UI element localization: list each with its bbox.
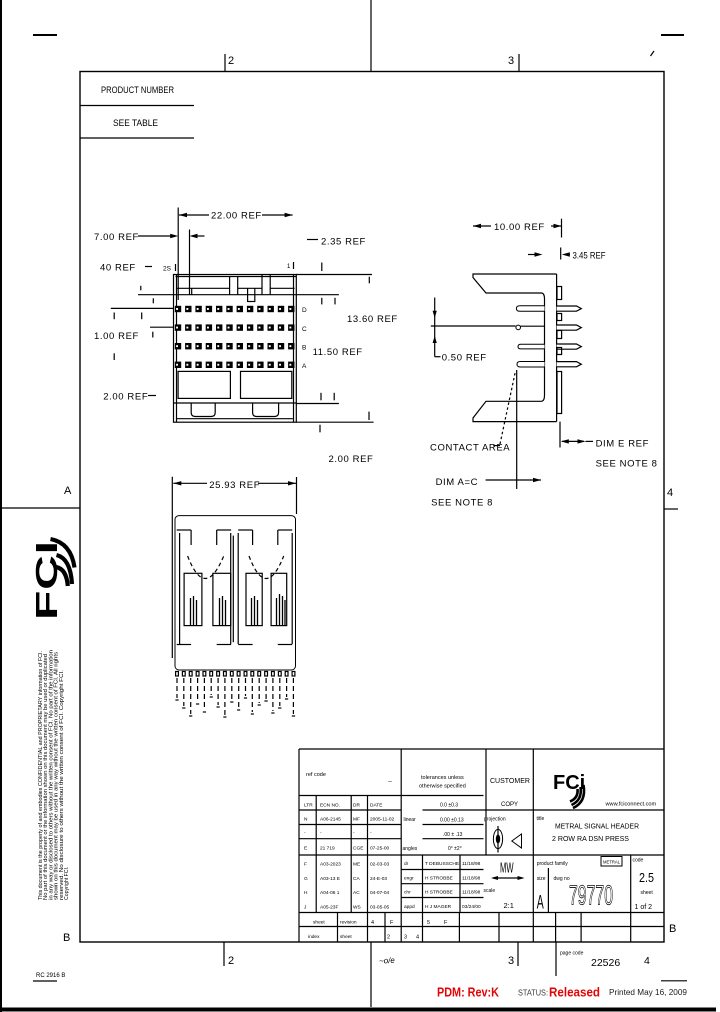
front top band xyxy=(174,294,297,296)
side pin row2 xyxy=(516,325,521,330)
svg-text:Printed May 16, 2009: Printed May 16, 2009 xyxy=(609,988,688,997)
foot left xyxy=(191,403,215,417)
svg-text:revision: revision xyxy=(340,920,357,926)
svg-text:CUSTOMER: CUSTOMER xyxy=(490,778,530,785)
zone tick bottom 2 xyxy=(223,942,225,966)
svg-text:7.00 REF: 7.00 REF xyxy=(94,232,139,243)
svg-text:index: index xyxy=(308,934,320,940)
svg-text:2: 2 xyxy=(387,935,390,941)
zone divider left A/B xyxy=(0,507,80,509)
svg-text:2.35 REF: 2.35 REF xyxy=(321,237,366,248)
svg-text:2S: 2S xyxy=(163,266,172,273)
svg-text:code: code xyxy=(633,858,644,864)
dim E REF xyxy=(559,422,561,448)
group2 pressfit pins xyxy=(252,594,286,625)
zone divider top xyxy=(370,0,372,72)
svg-text:Copyright FCI.: Copyright FCI. xyxy=(64,867,70,900)
svg-text:SEE NOTE 8: SEE NOTE 8 xyxy=(431,498,493,509)
svg-text:4: 4 xyxy=(371,920,374,926)
svg-text:DATE: DATE xyxy=(370,803,382,809)
svg-text:RC 2916 B: RC 2916 B xyxy=(36,973,65,979)
svg-text:AC: AC xyxy=(353,890,360,896)
svg-text:chr: chr xyxy=(404,890,411,896)
FCI logo vertical xyxy=(29,540,64,620)
dimension 10.00 REF xyxy=(473,219,562,238)
group1 pressfit pins xyxy=(191,596,226,625)
svg-text:ME: ME xyxy=(353,862,360,868)
svg-text:4: 4 xyxy=(416,935,419,941)
top-right tick mark xyxy=(651,51,655,56)
right stagger lines xyxy=(296,295,373,433)
FCI logo cell xyxy=(553,772,585,808)
svg-text:4: 4 xyxy=(667,487,673,499)
foot right xyxy=(253,403,279,417)
svg-text:F: F xyxy=(304,862,307,868)
svg-text:0.50 REF: 0.50 REF xyxy=(442,352,487,363)
svg-text:02-03-03: 02-03-03 xyxy=(370,862,390,868)
svg-text:1 of 2: 1 of 2 xyxy=(635,904,653,911)
svg-text:2: 2 xyxy=(228,55,234,67)
product number box xyxy=(80,106,194,139)
svg-text:A03-2023: A03-2023 xyxy=(320,862,341,868)
svg-text:3: 3 xyxy=(508,955,514,967)
svg-text:ref code: ref code xyxy=(306,772,326,778)
svg-text:11.50 REF: 11.50 REF xyxy=(313,347,363,358)
svg-text:H: H xyxy=(304,890,308,896)
svg-text:appd: appd xyxy=(404,904,415,910)
svg-text:PDM: Rev:K: PDM: Rev:K xyxy=(437,986,499,1000)
svg-text:CA: CA xyxy=(353,876,360,882)
dimension 22.00 REF xyxy=(178,208,292,301)
svg-text:www.fciconnect.com: www.fciconnect.com xyxy=(605,802,657,808)
strip verticals xyxy=(337,913,339,943)
svg-text:G: G xyxy=(304,876,308,882)
svg-text:B: B xyxy=(63,932,70,944)
svg-text:24-E-03: 24-E-03 xyxy=(370,876,387,882)
page code row xyxy=(555,942,557,976)
svg-text:04-07-04: 04-07-04 xyxy=(370,890,390,896)
svg-text:0.0 ±0.3: 0.0 ±0.3 xyxy=(440,803,458,809)
top-left dash xyxy=(33,34,57,36)
svg-text:22526: 22526 xyxy=(591,957,620,969)
dimension 25.93 REF xyxy=(172,477,296,658)
svg-text:CGE: CGE xyxy=(353,846,363,852)
svg-text:COPY: COPY xyxy=(501,802,518,808)
zone tick top 3 xyxy=(518,54,520,72)
svg-text:--: -- xyxy=(388,779,392,785)
svg-text:sheet: sheet xyxy=(313,920,325,926)
svg-text:03-05-05: 03-05-05 xyxy=(370,905,390,911)
side edge ribs xyxy=(557,287,562,414)
svg-text:07-25-00: 07-25-00 xyxy=(370,846,390,852)
zone divider bottom xyxy=(370,942,372,1007)
svg-text:otherwise specified: otherwise specified xyxy=(419,784,466,790)
svg-text:25.93 REF: 25.93 REF xyxy=(209,480,260,491)
left stagger lines xyxy=(111,286,174,360)
svg-text:B: B xyxy=(302,345,306,352)
date overline xyxy=(661,980,687,982)
svg-text:A03-13 E: A03-13 E xyxy=(320,876,340,882)
tb outer xyxy=(299,748,664,750)
scan edge left xyxy=(0,0,2,1012)
svg-text:11/18/98: 11/18/98 xyxy=(462,890,481,896)
svg-text:ECN NO.: ECN NO. xyxy=(320,803,340,809)
contact grid 4x12 xyxy=(175,306,295,368)
dim A=C xyxy=(516,370,518,489)
svg-text:A: A xyxy=(64,485,72,497)
svg-text:13.60 REF: 13.60 REF xyxy=(347,314,398,325)
svg-text:2.00 REF: 2.00 REF xyxy=(329,454,374,465)
bottom pins dashed xyxy=(175,672,295,718)
svg-text:3: 3 xyxy=(404,935,407,941)
revision table xyxy=(304,803,395,911)
BOTTOM VIEW xyxy=(172,477,296,717)
svg-text:5: 5 xyxy=(427,920,430,926)
svg-text:A04-06 1: A04-06 1 xyxy=(320,890,340,896)
svg-text:dwg no: dwg no xyxy=(554,876,570,882)
svg-text:MF: MF xyxy=(353,817,360,823)
scan bar bottom xyxy=(0,1008,716,1012)
svg-text:DR: DR xyxy=(353,803,360,809)
svg-text:11/18/98: 11/18/98 xyxy=(462,861,481,867)
bottom body outline xyxy=(175,516,296,670)
group1 slots xyxy=(177,530,234,645)
tb verticals xyxy=(315,796,317,913)
svg-text:2:1: 2:1 xyxy=(504,901,514,910)
svg-text:3.45 REF: 3.45 REF xyxy=(573,251,606,262)
dimension 7.00 REF xyxy=(138,235,205,237)
svg-text:DIM E REF: DIM E REF xyxy=(596,439,649,450)
svg-text:A: A xyxy=(537,893,544,914)
svg-text:E: E xyxy=(304,846,307,852)
svg-text:T DEBUSSCHE: T DEBUSSCHE xyxy=(425,861,459,867)
svg-text:scale: scale xyxy=(484,888,496,894)
PDM STATUS LINE xyxy=(379,956,688,1000)
FRONT VIEW xyxy=(94,208,398,466)
svg-text:.00 ± .13: .00 ± .13 xyxy=(443,832,463,838)
svg-text:sheet: sheet xyxy=(340,934,352,940)
svg-text:2005-11-02: 2005-11-02 xyxy=(370,817,395,823)
svg-text:MW: MW xyxy=(500,861,514,877)
svg-text:size: size xyxy=(537,876,546,882)
svg-text:angles: angles xyxy=(403,846,418,852)
svg-text:H STROBBE: H STROBBE xyxy=(425,876,453,882)
svg-text:0° ±2°: 0° ±2° xyxy=(448,846,462,852)
svg-text:METRAL: METRAL xyxy=(603,860,621,865)
svg-text:dr: dr xyxy=(404,861,409,867)
svg-text:STATUS:: STATUS: xyxy=(518,989,548,998)
svg-text:0.00 ±0.13: 0.00 ±0.13 xyxy=(440,818,464,824)
zone tick bottom 3 xyxy=(517,942,519,966)
svg-text:engr: engr xyxy=(404,876,414,882)
confidential text vertical xyxy=(38,650,70,900)
svg-text:4: 4 xyxy=(644,955,650,967)
svg-text:2.00 REF: 2.00 REF xyxy=(103,392,148,403)
zone tick right xyxy=(664,508,678,510)
side pin row1 xyxy=(516,306,544,312)
svg-text:A05-23F: A05-23F xyxy=(320,905,338,911)
svg-text:22.00 REF: 22.00 REF xyxy=(211,211,262,222)
svg-text:METRAL SIGNAL HEADER: METRAL SIGNAL HEADER xyxy=(555,822,640,831)
side pin row4 xyxy=(517,362,545,368)
svg-text:sheet: sheet xyxy=(641,890,654,896)
svg-text:A: A xyxy=(302,363,307,370)
SIDE VIEW xyxy=(430,219,658,509)
svg-text:~o/e: ~o/e xyxy=(379,956,396,966)
svg-text:SEE TABLE: SEE TABLE xyxy=(113,118,158,129)
svg-text:C: C xyxy=(302,326,307,333)
front body outline xyxy=(174,275,297,423)
svg-text:2 ROW RA DSN PRESS: 2 ROW RA DSN PRESS xyxy=(552,834,629,843)
svg-text:DIM A=C: DIM A=C xyxy=(436,477,478,488)
dimension 3.45 REF xyxy=(528,248,570,260)
zone tick top 2 xyxy=(224,54,226,72)
group2 slots xyxy=(238,530,292,645)
svg-text:Released: Released xyxy=(549,986,600,1000)
svg-text:product family: product family xyxy=(537,861,569,867)
side body outline xyxy=(473,274,557,299)
svg-text:B: B xyxy=(669,923,676,935)
svg-text:page code: page code xyxy=(560,951,584,957)
svg-text:WS: WS xyxy=(353,905,361,911)
svg-text:SEE NOTE 8: SEE NOTE 8 xyxy=(596,458,658,469)
svg-text:LTR: LTR xyxy=(304,803,313,809)
TITLE BLOCK xyxy=(299,749,664,976)
svg-text:N: N xyxy=(304,817,308,823)
top-right dash xyxy=(661,34,684,36)
tb horizontals xyxy=(299,795,484,797)
svg-text:reserved. No disclosure to oth: reserved. No disclosure to others withou… xyxy=(59,670,65,900)
svg-text:40 REF: 40 REF xyxy=(100,263,136,274)
side tails right xyxy=(557,306,582,367)
svg-text:2.5: 2.5 xyxy=(639,871,654,885)
svg-text:1.00 REF: 1.00 REF xyxy=(94,331,139,342)
LEFT MARGIN xyxy=(29,539,75,981)
sheet border frame xyxy=(80,72,664,943)
svg-text:21 719: 21 719 xyxy=(320,846,335,852)
svg-text:linear: linear xyxy=(404,817,417,823)
svg-text:D: D xyxy=(302,307,307,314)
dimension 0.50 REF xyxy=(431,298,516,357)
side pin row3 xyxy=(518,344,545,349)
front bottom band xyxy=(174,402,297,404)
svg-text:3: 3 xyxy=(508,55,514,67)
svg-text:tolerances unless: tolerances unless xyxy=(421,775,464,781)
front windows xyxy=(178,371,230,398)
svg-text:03/24/00: 03/24/00 xyxy=(462,904,481,910)
dimension 2.35 REF xyxy=(296,240,372,284)
svg-text:projection: projection xyxy=(484,817,506,823)
svg-text:PRODUCT NUMBER: PRODUCT NUMBER xyxy=(101,85,174,96)
svg-text:FCI: FCI xyxy=(29,540,64,620)
svg-text:title: title xyxy=(537,816,545,822)
svg-text:10.00 REF: 10.00 REF xyxy=(494,222,545,233)
svg-text:79770: 79770 xyxy=(569,880,613,911)
svg-text:A06-2145: A06-2145 xyxy=(320,817,341,823)
svg-text:11/18/98: 11/18/98 xyxy=(462,876,481,882)
svg-text:H STROBBE: H STROBBE xyxy=(425,890,453,896)
svg-text:CONTACT AREA: CONTACT AREA xyxy=(430,443,510,454)
svg-text:2: 2 xyxy=(228,955,234,967)
svg-text:H J MAGER: H J MAGER xyxy=(425,904,452,910)
